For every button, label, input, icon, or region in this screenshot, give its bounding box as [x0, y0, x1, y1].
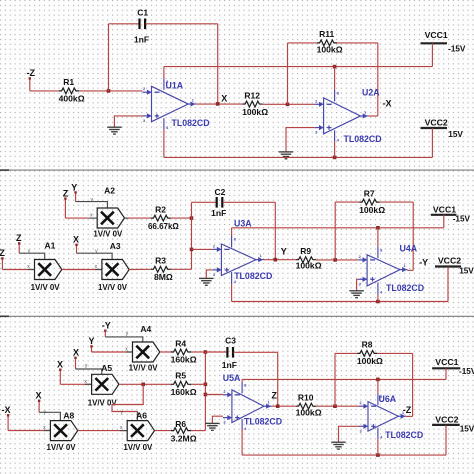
svg-text:-15V: -15V — [448, 44, 466, 53]
junction U6A V+ pin — [376, 378, 380, 382]
pin numbers of U4A — [359, 247, 407, 294]
wire A5 output branch down to A6 y input — [112, 384, 143, 411]
junction R7 feedback left — [333, 258, 337, 262]
svg-text:TL082CD: TL082CD — [244, 417, 282, 427]
svg-text:C2: C2 — [214, 187, 225, 197]
wire summing node up to C2 — [192, 201, 217, 203]
net terminal tick — [29, 78, 31, 91]
svg-text:TL082CD: TL082CD — [344, 134, 382, 144]
wire X to multiplier A8 y input — [39, 412, 60, 420]
junction U2A V- pin — [333, 156, 337, 160]
svg-text:U3A: U3A — [234, 219, 252, 229]
wire R3 to summing node — [171, 268, 192, 270]
power VCC2 15V — [421, 127, 448, 129]
wire C2 feedback down to node Y — [274, 202, 276, 259]
net terminal tick — [75, 192, 77, 202]
wire R11 branch left vertical — [287, 43, 289, 104]
svg-text:VCC2: VCC2 — [425, 117, 448, 127]
svg-text:TL082CD: TL082CD — [234, 271, 272, 281]
net terminal tick — [59, 369, 61, 384]
svg-text:A6: A6 — [136, 410, 147, 420]
svg-text:R7: R7 — [364, 188, 375, 198]
multiplier A3 1V/V 0V — [102, 260, 129, 280]
svg-text:A8: A8 — [63, 410, 74, 420]
wire junction up to C1 — [108, 24, 110, 91]
svg-text:VCC2: VCC2 — [438, 256, 461, 266]
svg-text:1V/V 0V: 1V/V 0V — [88, 398, 118, 407]
wire R7 branch left vertical — [334, 202, 336, 260]
svg-text:1nF: 1nF — [134, 35, 149, 45]
wire R6 to summing node — [191, 430, 205, 432]
wire C1 right plate to feedback corner — [145, 23, 217, 25]
junction U2A V+ pin — [333, 65, 337, 69]
wire A8 output to A6 x input — [78, 430, 128, 432]
svg-text:R11: R11 — [319, 29, 334, 39]
wire U5A V- pin to rail — [241, 429, 243, 455]
svg-text:1V/V 0V: 1V/V 0V — [123, 443, 153, 452]
resistor R4 160kΩ — [171, 349, 191, 355]
svg-text:A4: A4 — [140, 324, 151, 334]
wire U4A V- pin to rail — [377, 294, 379, 302]
op-amp U3A TL082CD — [212, 236, 263, 284]
net terminal tick — [91, 346, 93, 352]
svg-text:R10: R10 — [298, 393, 314, 403]
resistor R7 100kΩ — [360, 199, 380, 205]
wire C2 right plate to output corner — [223, 201, 276, 203]
svg-text:-15V: -15V — [453, 214, 471, 223]
wire to R8 — [335, 352, 357, 354]
wire C3 feedback down to node Z — [277, 352, 279, 406]
wire A6 output to R6 — [155, 430, 172, 432]
wire -Y to multiplier A4 y input — [105, 337, 143, 342]
wire U1A plus input to ground — [114, 116, 142, 127]
svg-text:U2A: U2A — [362, 88, 380, 98]
resistor R1 400kΩ — [59, 88, 79, 94]
svg-text:100kΩ: 100kΩ — [296, 407, 322, 417]
svg-text:66.67kΩ: 66.67kΩ — [148, 222, 179, 231]
net terminal tick — [64, 198, 66, 218]
svg-text:VCC1: VCC1 — [425, 30, 448, 40]
wire VEE rail up to VCC2 — [445, 425, 447, 455]
wire U1A V- pin to rail — [163, 130, 165, 158]
wire A3 output to R3 — [129, 268, 151, 270]
resistor R9 100kΩ — [296, 257, 316, 263]
svg-text:-Z: -Z — [403, 405, 412, 415]
wire A4 output to R4 — [160, 351, 171, 353]
op-amp U6A TL082CD — [359, 394, 406, 440]
power VCC2 15V — [432, 424, 460, 426]
svg-text:-Y: -Y — [419, 257, 428, 267]
wire U2A V+ pin to rail — [334, 67, 336, 90]
svg-text:R5: R5 — [175, 371, 186, 381]
svg-text:X: X — [73, 348, 79, 358]
VCC1 rail middle section — [232, 227, 444, 229]
wire VEE rail up to VCC2 — [447, 267, 449, 302]
junction node Z with C3 feedback — [276, 404, 280, 408]
svg-text:R4: R4 — [175, 338, 186, 348]
net terminal tick — [7, 415, 9, 431]
svg-text:1nF: 1nF — [222, 360, 237, 370]
svg-text:Y: Y — [281, 246, 287, 256]
svg-text:160kΩ: 160kΩ — [171, 387, 197, 397]
op-amp U5A TL082CD — [223, 382, 272, 431]
wire U3A V+ pin to rail — [231, 228, 233, 236]
wire U2A output to -X corner — [368, 115, 378, 117]
svg-text:A1: A1 — [44, 240, 55, 250]
summing node vertical wire — [191, 202, 193, 269]
svg-text:100kΩ: 100kΩ — [317, 44, 343, 54]
wire summing node to C3 left plate — [205, 351, 227, 353]
op-amp U4A TL082CD — [358, 247, 407, 294]
wire R10 to U6A inverting input — [316, 405, 359, 407]
wire R5 to summing node — [191, 383, 205, 385]
junction node X — [216, 102, 220, 106]
svg-text:-Y: -Y — [102, 320, 111, 330]
svg-text:-X: -X — [383, 99, 392, 109]
wire Y to multiplier A2 y input — [76, 202, 108, 208]
svg-text:TL082CD: TL082CD — [385, 430, 423, 440]
wire U3A V- pin to rail — [231, 284, 233, 302]
wire U2A V- pin to rail — [334, 142, 336, 158]
svg-text:15V: 15V — [460, 424, 474, 433]
svg-text:R8: R8 — [362, 340, 373, 350]
svg-text:U4A: U4A — [400, 244, 418, 254]
capacitor C1 1nF — [138, 19, 140, 30]
wire R2 to summing node — [171, 217, 192, 219]
svg-text:1V/V 0V: 1V/V 0V — [98, 283, 128, 292]
multiplier A6 1V/V 0V — [127, 421, 154, 441]
VCC1 rail bottom section — [242, 378, 446, 380]
VEE rail top section — [164, 156, 433, 158]
wire U6A V- pin to rail — [377, 439, 379, 455]
junction summing node R5 — [204, 383, 208, 387]
VCC1 rail top section — [164, 66, 433, 68]
svg-text:A5: A5 — [101, 363, 112, 373]
ground GND U2A — [279, 152, 294, 159]
net terminal tick — [38, 400, 40, 412]
svg-text:R1: R1 — [63, 77, 74, 87]
wire summing node to U3A inverting input — [192, 248, 213, 250]
wire R11 to right vertical — [337, 42, 378, 44]
multiplier A8 1V/V 0V — [50, 421, 77, 441]
wire summing node to U5A inverting input — [205, 394, 223, 396]
svg-text:Y: Y — [89, 336, 95, 346]
svg-text:VCC1: VCC1 — [435, 357, 458, 367]
pin numbers of U2A — [315, 90, 367, 142]
op-amp U1A TL082CD — [143, 78, 196, 129]
wire A1 output to A3 x input — [62, 269, 102, 271]
wire U5A V+ pin to rail — [241, 379, 243, 382]
svg-text:C3: C3 — [225, 336, 236, 346]
wire Y to multiplier A4 x input — [92, 351, 133, 353]
svg-text:R3: R3 — [155, 256, 166, 266]
wire U1A output to node X — [196, 103, 243, 105]
VEE rail bottom section — [242, 454, 446, 456]
svg-text:-X: -X — [2, 405, 11, 415]
wire Z to multiplier A1 y input — [19, 253, 45, 259]
multiplier A4 1V/V 0V — [133, 342, 160, 362]
wire U5A output to node Z — [271, 405, 296, 407]
svg-text:15V: 15V — [448, 130, 463, 139]
net terminal tick — [18, 243, 20, 253]
pin numbers of U6A — [360, 394, 405, 440]
wire Z to multiplier A1 x input — [2, 269, 34, 271]
wire to R11 — [288, 42, 318, 44]
wire C3 right plate to feedback corner — [233, 351, 278, 353]
section separator line 2 — [0, 315, 474, 317]
VEE rail middle section — [232, 301, 448, 303]
wire A5 output to R5 — [119, 383, 171, 385]
wire U1A V+ pin to rail — [163, 67, 165, 79]
op-amp U2A TL082CD — [315, 90, 368, 142]
wire U4A V+ pin to rail — [377, 228, 379, 247]
svg-text:R12: R12 — [244, 90, 260, 100]
summing node vertical wire bottom — [204, 352, 206, 431]
power VCC1 -15V — [431, 214, 457, 216]
svg-text:Z: Z — [272, 391, 278, 401]
svg-text:-Z: -Z — [27, 68, 36, 78]
wire R12 to U2A inverting input — [263, 103, 315, 105]
resistor R5 160kΩ — [171, 381, 191, 387]
svg-text:R2: R2 — [155, 204, 166, 214]
svg-text:X: X — [73, 235, 79, 245]
junction node Y with C2 feedback — [274, 258, 278, 262]
svg-text:8MΩ: 8MΩ — [154, 272, 173, 282]
svg-text:100kΩ: 100kΩ — [296, 260, 322, 270]
wire R8 branch left vertical — [334, 353, 336, 406]
wire U4A output to -Y corner — [407, 269, 413, 271]
junction A5 output to A6 branch — [141, 383, 145, 387]
pin numbers of U5A — [223, 382, 270, 431]
resistor R6 3.2MΩ — [171, 428, 191, 434]
wire R11 branch right vertical down to U2A output — [377, 43, 379, 116]
ground GND U4A — [349, 291, 364, 298]
svg-text:3.2MΩ: 3.2MΩ — [171, 433, 197, 443]
svg-text:400kΩ: 400kΩ — [59, 94, 85, 104]
wire R8 branch right vertical down to U6A output — [412, 353, 414, 416]
section separator line 1 — [0, 169, 474, 171]
wire C1 feedback down to node X — [217, 24, 219, 104]
junction U6A V- pin — [376, 453, 380, 457]
wire -X to multiplier A8 x input — [8, 430, 50, 432]
ground GND U3A — [199, 278, 214, 285]
wire U3A plus input to ground — [206, 270, 212, 279]
svg-text:R9: R9 — [300, 246, 311, 256]
net terminal tick — [75, 357, 77, 369]
svg-text:X: X — [57, 359, 63, 369]
junction U4A V- pin — [376, 300, 380, 304]
wire R7 to right vertical — [380, 201, 414, 203]
wire R9 to U4A inverting input — [316, 259, 358, 261]
wire U5A plus input to ground — [212, 416, 223, 423]
multiplier A1 1V/V 0V — [35, 260, 62, 280]
svg-text:TL082CD: TL082CD — [386, 283, 424, 293]
ground GND U1A — [107, 127, 122, 134]
svg-text:C1: C1 — [137, 8, 148, 18]
ground GND U6A — [331, 442, 346, 449]
svg-text:100kΩ: 100kΩ — [242, 107, 268, 117]
capacitor C2 1nF — [216, 197, 218, 208]
power VCC1 -15V — [432, 367, 460, 369]
wire X to multiplier A5 x input — [60, 383, 91, 385]
junction node input U1A — [107, 89, 111, 93]
junction summing node R2 — [190, 216, 194, 220]
wire -Z input to R1 — [30, 90, 59, 92]
wire to R7 — [335, 201, 359, 203]
power VCC1 -15V — [421, 42, 448, 44]
svg-text:1nF: 1nF — [211, 208, 226, 218]
multiplier A5 1V/V 0V — [92, 374, 119, 394]
wire R4 to summing node — [191, 351, 205, 353]
wire X to multiplier A5 y input — [76, 369, 102, 374]
net terminal tick — [104, 330, 106, 337]
wire X to multiplier A3 y input — [77, 253, 113, 259]
pin numbers of U1A — [143, 79, 195, 130]
wire R8 to right vertical — [377, 352, 412, 354]
svg-text:100kΩ: 100kΩ — [359, 205, 385, 215]
svg-text:Z: Z — [0, 248, 5, 258]
wire A2 output to R2 — [125, 217, 151, 219]
wire Z to multiplier A2 x input — [65, 217, 89, 219]
resistor R2 66.67kΩ — [151, 215, 171, 221]
junction summing node R4 C3 — [204, 350, 208, 354]
svg-text:Z: Z — [63, 188, 69, 198]
resistor R10 100kΩ — [296, 403, 316, 409]
svg-text:1V/V 0V: 1V/V 0V — [93, 229, 123, 238]
svg-text:A3: A3 — [110, 241, 121, 251]
wire U3A output to node Y — [264, 259, 297, 261]
svg-text:1V/V 0V: 1V/V 0V — [129, 364, 159, 373]
junction R8 feedback left — [333, 404, 337, 408]
wire U6A V+ pin to rail — [377, 379, 379, 393]
resistor R12 100kΩ — [243, 101, 263, 107]
ground GND U5A — [205, 423, 220, 430]
wire R1 to U1A inverting input — [79, 90, 143, 92]
capacitor C3 1nF — [226, 347, 228, 358]
net terminal tick — [76, 244, 78, 253]
resistor R11 100kΩ — [317, 40, 337, 46]
resistor R3 8MΩ — [151, 266, 171, 272]
power VCC2 15V — [435, 265, 461, 267]
wire U6A output to -Z corner — [406, 415, 413, 417]
pin numbers of U3A — [213, 237, 263, 285]
wire to C1 left plate — [109, 23, 140, 25]
svg-text:1V/V 0V: 1V/V 0V — [31, 283, 61, 292]
junction summing node to U5A minus — [204, 393, 208, 397]
junction U4A V+ pin — [376, 226, 380, 230]
svg-text:-15V: -15V — [459, 367, 474, 376]
junction R11 feedback left — [286, 103, 290, 107]
wire U4A plus input to ground — [357, 279, 359, 291]
svg-text:100kΩ: 100kΩ — [357, 356, 383, 366]
svg-text:U5A: U5A — [223, 373, 241, 383]
svg-text:160kΩ: 160kΩ — [171, 355, 197, 365]
wire U6A plus input to ground — [339, 426, 360, 442]
multiplier A2 1V/V 0V — [97, 208, 124, 228]
svg-text:VCC1: VCC1 — [433, 204, 456, 214]
wire R7 branch right vertical down to U4A output — [412, 202, 414, 270]
svg-text:1V/V 0V: 1V/V 0V — [47, 443, 77, 452]
svg-text:VCC2: VCC2 — [435, 415, 458, 425]
svg-text:TL082CD: TL082CD — [172, 118, 210, 128]
wire U2A plus input to ground — [286, 128, 315, 152]
net terminal tick — [1, 258, 3, 270]
svg-text:X: X — [36, 391, 42, 401]
svg-text:X: X — [221, 93, 227, 103]
junction summing node to U3A minus — [190, 248, 194, 252]
svg-text:Z: Z — [16, 233, 22, 243]
resistor R8 100kΩ — [357, 351, 377, 357]
svg-text:Y: Y — [71, 182, 77, 192]
svg-text:A2: A2 — [104, 185, 115, 195]
svg-text:15V: 15V — [459, 266, 474, 275]
svg-text:R6: R6 — [175, 419, 186, 429]
